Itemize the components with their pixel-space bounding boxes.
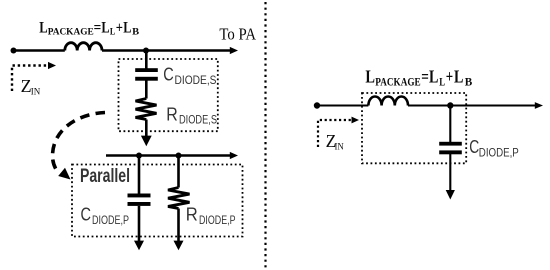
node: input terminal dot (right) xyxy=(314,102,320,108)
wire: lower horizontal bus xyxy=(106,154,231,156)
wire: R_DIODE,P to down arrow xyxy=(177,209,180,243)
dotted box: simplified parallel model (right) xyxy=(362,93,466,163)
arrowhead: output (right) xyxy=(535,102,543,109)
svg-text:L: L xyxy=(439,76,445,88)
capacitor C_DIODE,S xyxy=(135,68,158,81)
svg-text:L: L xyxy=(454,66,463,86)
svg-text:L: L xyxy=(365,66,375,86)
label Z_IN (left) xyxy=(21,76,41,97)
svg-text:DIODE,S: DIODE,S xyxy=(179,113,217,127)
svg-text:IN: IN xyxy=(335,142,344,152)
wire: junction down to C_DIODE,S xyxy=(145,51,148,69)
svg-text:L: L xyxy=(110,27,116,38)
svg-text:+: + xyxy=(116,20,123,37)
Z_IN dotted arrow (left) xyxy=(12,62,56,91)
wire: C_DIODE,S to R_DIODE,S xyxy=(145,81,148,99)
label R_DIODE,P xyxy=(186,204,236,227)
svg-text:=: = xyxy=(94,20,102,37)
resistor R_DIODE,P xyxy=(168,188,190,209)
svg-text:L: L xyxy=(101,20,109,37)
junction node (right) xyxy=(447,102,453,108)
node: input terminal dot (left) xyxy=(11,48,17,54)
label Z_IN (right) xyxy=(326,131,344,153)
svg-text:L: L xyxy=(39,20,47,37)
svg-text:IN: IN xyxy=(31,87,41,97)
label L_PACKAGE=L_L+L_B (left) xyxy=(39,20,139,38)
wire: bus down to R_DIODE,P xyxy=(177,156,180,188)
node dot: C_DIODE,P branch xyxy=(136,153,142,159)
svg-text:B: B xyxy=(465,76,473,88)
dotted box: series RC diode model xyxy=(119,59,218,131)
wire: inductor to output arrow (right) xyxy=(408,104,536,106)
divider: vertical dotted separator xyxy=(264,2,266,268)
wire: R_DIODE,S down to arrow xyxy=(145,120,148,138)
svg-text:B: B xyxy=(132,27,139,38)
label R_DIODE,S xyxy=(166,103,217,126)
node dot: R_DIODE,P branch xyxy=(176,153,182,159)
capacitor C_DIODE,P (left diagram) xyxy=(128,194,151,206)
svg-text:To PA: To PA xyxy=(219,25,256,44)
arrowhead: To PA (left) xyxy=(230,47,238,54)
arrowhead: below C_DIODE,P xyxy=(134,241,144,251)
resistor R_DIODE,S xyxy=(136,99,157,120)
svg-text:Parallel: Parallel xyxy=(80,165,130,187)
svg-text:DIODE,P: DIODE,P xyxy=(199,213,236,227)
wire: bus down to C_DIODE,P xyxy=(138,156,141,194)
wire: C_DIODE,P to down arrow (right) xyxy=(449,154,451,191)
arrowhead: below R_DIODE,P xyxy=(174,241,184,251)
capacitor C_DIODE,P (right) xyxy=(439,142,462,154)
wire: junction down to C_DIODE,P (right) xyxy=(449,106,451,143)
wire: input to inductor (left) xyxy=(14,49,65,51)
label C_DIODE,P (right) xyxy=(469,136,519,159)
wire: inductor to To PA arrow (left) xyxy=(102,49,231,51)
svg-text:DIODE,P: DIODE,P xyxy=(479,145,519,159)
Z_IN dotted arrow (right) xyxy=(318,117,359,147)
inductor L_PACKAGE (left) xyxy=(65,43,102,51)
inductor L_PACKAGE (right) xyxy=(368,96,408,105)
arrowhead: lower bus right xyxy=(230,152,238,159)
label C_DIODE,S xyxy=(163,64,216,87)
label L_PACKAGE=L_L+L_B (right) xyxy=(365,66,472,88)
junction node: diode branch tap (left) xyxy=(143,48,149,54)
svg-text:L: L xyxy=(123,20,131,37)
label C_DIODE,P (left diagram) xyxy=(81,204,130,227)
dashed transform arrow (series to parallel) xyxy=(52,113,105,180)
svg-text:PACKAGE: PACKAGE xyxy=(375,76,420,88)
svg-text:+: + xyxy=(446,66,453,86)
arrowhead: below C_DIODE,P (right) xyxy=(446,190,455,200)
svg-text:L: L xyxy=(429,66,438,86)
svg-text:C: C xyxy=(163,64,174,85)
svg-text:C: C xyxy=(469,136,479,157)
svg-text:C: C xyxy=(81,204,92,225)
svg-text:PACKAGE: PACKAGE xyxy=(48,27,94,38)
svg-text:=: = xyxy=(421,66,429,86)
svg-text:R: R xyxy=(186,204,198,225)
arrowhead: series branch pointing down xyxy=(141,136,152,147)
svg-text:DIODE,P: DIODE,P xyxy=(92,213,129,227)
dotted box: parallel RC diode model xyxy=(72,165,243,237)
wire: C_DIODE,P to down arrow xyxy=(138,206,141,242)
svg-text:R: R xyxy=(166,103,178,124)
wire: input to inductor (right) xyxy=(317,104,368,106)
svg-text:DIODE,S: DIODE,S xyxy=(175,73,217,87)
